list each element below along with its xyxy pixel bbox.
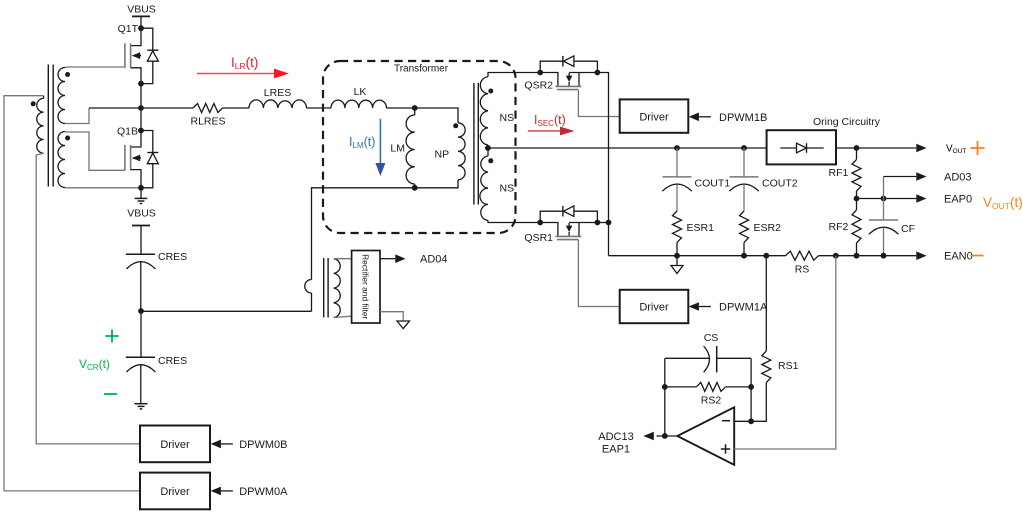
capacitor CRES (lower) [140, 311, 142, 357]
svg-text:CS: CS [704, 332, 719, 344]
node RF1/RF2 junction [854, 196, 860, 202]
winding NS upper [480, 77, 488, 145]
NS lower polarity dot [488, 158, 493, 163]
resistor RF1 [856, 148, 858, 160]
node opamp + tap [833, 253, 839, 259]
wire center tap output rail [487, 145, 489, 148]
wire NS lower top to center tap [487, 148, 489, 156]
resistor ESR2 [740, 211, 749, 243]
wire EAN0 rail left [609, 255, 786, 257]
svg-text:Rectifier and filter: Rectifier and filter [361, 254, 371, 319]
node ESR1 bottom [674, 253, 680, 259]
node QSR2 source [595, 70, 601, 76]
node RS2 left [662, 384, 668, 390]
transistor QSR1 [540, 223, 558, 237]
svg-text:RF1: RF1 [829, 167, 849, 179]
TG primary polarity dot [31, 101, 36, 106]
capacitor COUT2 [743, 148, 745, 177]
svg-text:AD04: AD04 [420, 254, 448, 266]
capacitor CS [665, 357, 709, 359]
wire ESR1 to rail [676, 243, 678, 256]
node QSR1 drain [537, 220, 543, 226]
VBUS rail bar 2 [132, 225, 150, 227]
wire feedback left vertical [664, 358, 666, 436]
transistor Q1B [131, 131, 141, 148]
DPWM1A input arrow [689, 302, 699, 311]
gate-drive transformer TG primary winding [37, 98, 44, 153]
diode D-Q1T (body diode) [141, 28, 153, 83]
svg-text:LM: LM [390, 143, 405, 155]
svg-text:Q1B: Q1B [117, 126, 138, 138]
wire RS1 top [765, 256, 767, 351]
svg-text:RF2: RF2 [829, 221, 849, 233]
wire RS1 bottom to inverting node [751, 383, 766, 422]
wire TG upper secondary bottom to half-bridge midpoint [65, 108, 89, 124]
node COUT1 top [674, 145, 680, 151]
winding NP [458, 123, 465, 180]
node RS2 right [748, 384, 754, 390]
node QSR1 source [595, 220, 601, 226]
VBUS rail bar [132, 15, 150, 17]
TG core [47, 65, 49, 187]
node Q1T source / diode [138, 81, 144, 87]
svg-text:NS: NS [500, 183, 515, 195]
svg-text:VBUS: VBUS [127, 208, 156, 220]
resistor RS [786, 251, 819, 260]
inductor LRES [249, 100, 307, 108]
wire AD03 branch [883, 177, 885, 199]
svg-text:DPWM1B: DPWM1B [719, 112, 767, 124]
diode D-QSR1 (body diode) [540, 211, 597, 222]
svg-text:Oring Circuitry: Oring Circuitry [813, 116, 881, 128]
wire feedback right vertical [750, 358, 752, 421]
node LM/NP bottom [412, 185, 418, 191]
wire TG lower secondary bottom to Q1B source [65, 187, 138, 189]
wire common source down to EAN0 rail [608, 223, 610, 256]
node RS1 tap [763, 253, 769, 259]
capacitor CRES (upper) [126, 253, 155, 255]
svg-text:DPWM0A: DPWM0A [239, 486, 288, 498]
svg-text:Driver: Driver [639, 111, 669, 123]
ground ESR1 (triangle) [676, 256, 678, 266]
svg-text:CRES: CRES [158, 251, 187, 263]
wire inverting input [734, 420, 751, 422]
NS upper polarity dot [488, 89, 493, 94]
svg-text:EAP0: EAP0 [944, 194, 972, 206]
svg-text:EAP1: EAP1 [602, 443, 630, 455]
inductor LM (magnetizing) [414, 108, 416, 115]
svg-text:Driver: Driver [639, 302, 669, 314]
TG upper secondary polarity dot [65, 72, 70, 77]
node sync-rect common source [606, 220, 612, 226]
svg-text:Driver: Driver [160, 439, 190, 451]
svg-text:NS: NS [500, 112, 515, 124]
svg-text:ESR2: ESR2 [754, 222, 782, 234]
VCR(t) minus sign (green) [104, 393, 117, 395]
wire TG upper secondary top to Q1T gate [65, 66, 125, 69]
ground rectifier output (triangle) [380, 312, 403, 321]
svg-text:RLRES: RLRES [190, 116, 225, 128]
op-amp U-EA [677, 407, 734, 465]
svg-text:EAN0: EAN0 [944, 251, 973, 263]
svg-text:RS2: RS2 [701, 395, 722, 407]
node COUT2 top [741, 145, 747, 151]
wire VOUT rail + arrow [836, 147, 916, 149]
VOUT plus sign (orange) [971, 147, 985, 149]
wire QSR1 gate to driver DPWM1A [578, 240, 619, 307]
driver U-DPWM0B box [140, 426, 210, 463]
node resonant cap midpoint [138, 308, 144, 314]
svg-text:LRES: LRES [264, 87, 291, 99]
wire Q1T source to midpoint [140, 84, 142, 108]
svg-text:RS: RS [795, 264, 810, 276]
wire LRES to LK [307, 107, 332, 109]
DPWM0B input arrow [211, 440, 221, 449]
node AD03 tap [881, 196, 887, 202]
resistor ESR1 [673, 211, 682, 243]
wire QSR2 source down to QSR1 source [597, 73, 608, 223]
wire midpoint rail [89, 107, 193, 109]
wire TG lower secondary top to Q1B gate [65, 132, 125, 170]
ISEC(t) current arrow [528, 130, 560, 132]
svg-text:QSR1: QSR1 [524, 232, 553, 244]
wire LM bottom to CT primary [312, 188, 415, 280]
node Q1B drain [138, 128, 144, 134]
EAN0 minus sign (orange) [971, 255, 984, 257]
CT core [323, 258, 325, 318]
transformer boundary (dashed) [323, 61, 516, 233]
svg-text:LK: LK [354, 86, 367, 98]
inductor LK [331, 100, 387, 108]
DPWM1B input arrow [689, 113, 699, 122]
wire ESR2 to rail [743, 243, 745, 256]
node inverting input [748, 418, 754, 424]
wire RLRES to LRES [223, 107, 250, 109]
wire NS lower bottom to QSR1 drain [488, 221, 540, 223]
wire op-amp output + ADC13 arrow [657, 435, 678, 437]
driver U-DPWM1B box [620, 99, 689, 132]
DPWM0A input arrow [211, 487, 221, 496]
CT primary turn [305, 280, 312, 294]
svg-text:ESR1: ESR1 [687, 222, 715, 234]
resistor RLRES [193, 104, 223, 113]
Oring circuitry box U-OR [767, 130, 836, 164]
node LK/LM/NP top [412, 105, 418, 111]
node Q1T drain [138, 25, 144, 31]
main transformer core [473, 83, 475, 205]
wire LK to node [387, 107, 415, 109]
CT secondary winding [334, 259, 341, 318]
VCR(t) plus sign (green) [106, 335, 119, 337]
svg-text:ADC13: ADC13 [598, 431, 633, 443]
wire node to NP top [415, 108, 458, 123]
wire non-inverting input to EAN0 rail [734, 256, 836, 449]
TG secondary winding upper (Q1T gate) [58, 68, 65, 124]
wire midpoint to CT primary [141, 310, 312, 312]
wire NP bottom to node [415, 180, 458, 188]
resistor RS2 [665, 386, 697, 388]
transistor QSR2 [540, 73, 558, 87]
TG lower secondary polarity dot [65, 136, 70, 141]
driver U-DPWM1A box [620, 290, 689, 323]
node RF2 bottom [854, 253, 860, 259]
svg-text:COUT2: COUT2 [762, 178, 798, 190]
svg-text:DPWM1A: DPWM1A [719, 302, 768, 314]
svg-text:VBUS: VBUS [127, 4, 156, 16]
node QSR2 drain [537, 70, 543, 76]
resistor RF2 [856, 199, 858, 211]
svg-text:DPWM0B: DPWM0B [239, 439, 287, 451]
wire EAN0 rail right + arrow [819, 255, 917, 257]
svg-text:Q1T: Q1T [118, 23, 139, 35]
wire midpoint to Q1B drain [140, 108, 142, 131]
resistor RS1 [762, 351, 771, 383]
svg-text:Transformer: Transformer [394, 64, 449, 75]
svg-text:COUT1: COUT1 [695, 178, 731, 190]
svg-text:NP: NP [435, 149, 450, 161]
svg-text:Driver: Driver [160, 486, 190, 498]
diode D-QSR2 (body diode) [540, 61, 597, 72]
capacitor CF [883, 199, 885, 221]
ILR(t) current arrow [197, 73, 274, 75]
wire AD04 + arrow [380, 258, 395, 260]
wire EAP0 rail + arrow [857, 198, 917, 200]
driver U-DPWM0A box [140, 473, 210, 510]
node ESR2 bottom [741, 253, 747, 259]
svg-text:RS1: RS1 [778, 360, 799, 372]
transistor Q1T [131, 28, 141, 45]
diode D-OR (oring diode) [780, 147, 823, 149]
ground Q1B source [140, 188, 142, 198]
wire CT secondary to box [334, 258, 352, 260]
node VOUT rail [854, 145, 860, 151]
ground CRES lower [135, 403, 148, 405]
node op-amp output [662, 433, 668, 439]
wire QSR2 gate to driver DPWM1B [578, 90, 619, 117]
NP polarity dot [453, 123, 458, 128]
wire TG primary top to DPWM0A driver [4, 96, 140, 491]
TG secondary winding lower (Q1B gate) [58, 132, 65, 188]
wire TG primary bottom to DPWM0B driver [36, 153, 140, 444]
node CF bottom [881, 253, 887, 259]
ILM(t) current arrow [379, 119, 381, 163]
node Q1B source [138, 185, 144, 191]
wire QSR1 source to negative rail [597, 222, 608, 224]
winding NS lower [480, 156, 488, 221]
svg-text:AD03: AD03 [944, 172, 972, 184]
svg-text:CF: CF [901, 223, 915, 235]
diode D-Q1B (body diode) [141, 131, 153, 188]
node center tap [485, 145, 491, 151]
wire NS upper top to QSR2 drain [488, 73, 540, 77]
svg-text:CRES: CRES [158, 355, 187, 367]
svg-text:QSR2: QSR2 [524, 80, 553, 92]
rectifier and filter box U-RF [352, 251, 380, 324]
capacitor COUT1 [676, 148, 678, 177]
node half-bridge midpoint [138, 105, 144, 111]
